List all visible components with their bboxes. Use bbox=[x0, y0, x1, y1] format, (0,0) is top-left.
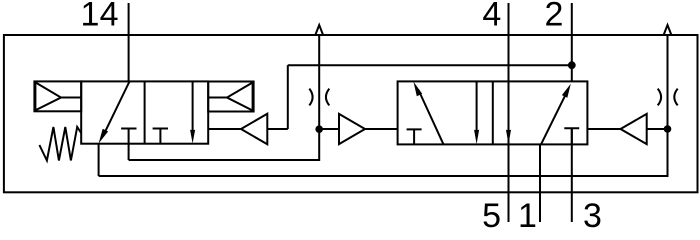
port 14 line bbox=[128, 3, 130, 81]
svg-text:3: 3 bbox=[583, 197, 602, 231]
pilot box right link bbox=[208, 97, 227, 99]
main valve left diagonal bbox=[419, 90, 444, 144]
main valve body bbox=[398, 81, 588, 144]
pilot box right bbox=[208, 82, 253, 112]
wire pilot vent bbox=[129, 35, 320, 160]
pilot exhaust port wire bbox=[98, 144, 100, 176]
right pilot triangle bbox=[621, 114, 647, 144]
right pilot to valve wire bbox=[587, 128, 620, 130]
exhaust arrow up right bbox=[664, 25, 671, 35]
svg-text:5: 5 bbox=[482, 197, 501, 231]
wire pilot output to riser bbox=[267, 128, 288, 130]
pilot valve plugged port T2 bbox=[153, 129, 168, 144]
solenoid coil box bbox=[34, 81, 81, 111]
arrowhead main right diagonal bbox=[562, 84, 571, 98]
enclosure border bbox=[4, 35, 698, 192]
port 5 line bbox=[508, 81, 510, 222]
return spring bbox=[39, 127, 81, 161]
svg-text:1: 1 bbox=[518, 197, 537, 231]
node B junction bbox=[315, 125, 323, 133]
arrowhead pilot exhaust bbox=[190, 130, 195, 144]
main valve divider bbox=[492, 81, 494, 144]
left pilot triangle bbox=[339, 114, 365, 144]
left pilot link wire bbox=[319, 128, 339, 130]
arrowhead main left diagonal bbox=[414, 82, 423, 96]
node A junction bbox=[568, 61, 576, 69]
riser x287 bbox=[287, 65, 289, 129]
pilot output triangle bbox=[241, 114, 267, 145]
svg-text:2: 2 bbox=[545, 0, 564, 34]
right pilot link wire bbox=[647, 128, 668, 130]
pilot output link bbox=[208, 128, 241, 130]
solenoid link bbox=[61, 97, 81, 99]
pilot valve flow diagonal bbox=[104, 81, 130, 134]
main valve right T bbox=[564, 128, 579, 144]
pilot valve divider bbox=[144, 81, 146, 143]
pilot valve exhaust arrow line bbox=[192, 81, 194, 132]
port 4 line bbox=[508, 3, 510, 81]
port 3 line bbox=[571, 128, 573, 222]
left pilot to valve wire bbox=[365, 128, 398, 130]
main valve right diagonal bbox=[541, 91, 567, 144]
pilot valve plugged port T1 bbox=[121, 129, 136, 161]
main valve left down arrow line bbox=[476, 81, 478, 132]
pilot valve body bbox=[81, 81, 208, 143]
arrowhead main 4to5 bbox=[506, 130, 511, 144]
pilot box right triangle bbox=[227, 83, 253, 111]
wire top horizontal to node A bbox=[288, 64, 572, 66]
exhaust arrow up left bbox=[316, 25, 323, 35]
port 2 line bbox=[571, 3, 573, 81]
seal arcs right bbox=[658, 89, 678, 106]
arrowhead main left down bbox=[474, 130, 479, 144]
svg-text:14: 14 bbox=[81, 0, 119, 34]
svg-text:4: 4 bbox=[482, 0, 501, 34]
seal arcs left bbox=[309, 89, 329, 106]
solenoid triangle bbox=[35, 82, 61, 110]
wire bottom long bbox=[99, 129, 668, 176]
port 1 line bbox=[539, 144, 541, 222]
node C junction bbox=[664, 125, 672, 133]
right riser bbox=[667, 35, 669, 176]
main valve left T bbox=[407, 129, 422, 144]
arrowhead pilot diagonal bbox=[99, 129, 109, 144]
